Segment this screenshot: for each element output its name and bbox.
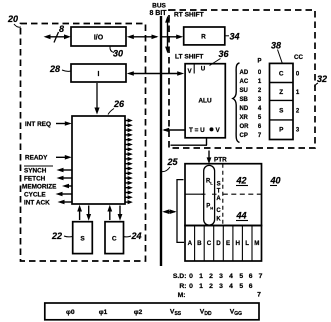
svg-text:M: M [254, 240, 259, 247]
svg-text:VGG: VGG [230, 309, 242, 318]
svg-text:ND: ND [240, 106, 249, 112]
svg-text:5: 5 [239, 283, 243, 290]
wire bus to R [162, 36, 181, 38]
svg-text:H: H [235, 240, 240, 247]
svg-text:7: 7 [259, 273, 263, 280]
svg-text:RT SHIFT: RT SHIFT [174, 12, 204, 19]
svg-text:L: L [210, 181, 213, 186]
svg-text:LT SHIFT: LT SHIFT [175, 54, 203, 61]
svg-text:B: B [197, 240, 202, 247]
flag index column [296, 72, 300, 134]
svg-text:1: 1 [296, 90, 300, 96]
op-code brace [233, 63, 240, 143]
svg-text:S: S [217, 182, 221, 188]
register cells [185, 226, 262, 262]
svg-text:6: 6 [258, 124, 262, 130]
svg-text:1: 1 [199, 283, 203, 290]
svg-text:0: 0 [296, 72, 300, 78]
bus width arrow 8 [46, 36, 69, 38]
svg-text:2: 2 [209, 273, 213, 280]
svg-text:AD: AD [240, 70, 249, 76]
svg-text:E: E [226, 240, 230, 247]
svg-text:P: P [257, 59, 261, 65]
svg-text:φ0: φ0 [66, 309, 75, 316]
stack divider left [185, 193, 204, 195]
svg-text:4: 4 [258, 106, 262, 112]
stack column dashed edge [222, 164, 224, 226]
svg-text:30: 30 [113, 49, 123, 59]
shift register box R 34 [184, 27, 225, 45]
ALU output stub [206, 138, 208, 145]
svg-text:2: 2 [209, 283, 213, 290]
svg-text:BUS: BUS [152, 3, 166, 10]
svg-text:H: H [210, 206, 213, 211]
svg-text:C: C [112, 236, 117, 243]
svg-text:36: 36 [219, 49, 230, 59]
pointer capsule [204, 165, 215, 225]
svg-text:CC: CC [294, 54, 303, 61]
register letters [188, 240, 260, 247]
dashed boundary box 20 [21, 24, 146, 262]
svg-text:D: D [216, 240, 221, 247]
svg-text:2: 2 [296, 109, 300, 115]
svg-text:2: 2 [258, 88, 262, 94]
op labels [240, 70, 250, 139]
svg-text:3: 3 [219, 273, 223, 280]
svg-text:SYNCH: SYNCH [24, 168, 47, 175]
svg-text:φ2: φ2 [134, 309, 143, 316]
bus branch vertical [167, 19, 169, 50]
svg-text:SU: SU [240, 88, 248, 94]
svg-text:4: 4 [229, 273, 233, 280]
svg-text:32: 32 [317, 74, 327, 84]
svg-text:CYCLE: CYCLE [24, 192, 46, 199]
svg-text:26: 26 [113, 99, 125, 109]
state box S 22 [73, 222, 93, 254]
register stack box 40 [185, 164, 262, 226]
svg-text:44: 44 [236, 211, 247, 221]
svg-text:C: C [207, 240, 212, 247]
svg-text:3: 3 [219, 283, 223, 290]
svg-text:34: 34 [230, 32, 240, 42]
svg-text:AC: AC [240, 79, 249, 85]
svg-text:R:: R: [179, 283, 186, 290]
PTR arrow [208, 151, 210, 161]
svg-text:T: T [217, 189, 221, 195]
svg-text:3: 3 [296, 128, 300, 134]
svg-text:PTR: PTR [214, 157, 227, 164]
wire bus to I [131, 73, 160, 75]
svg-text:5: 5 [258, 115, 262, 121]
label 34 [225, 35, 229, 37]
svg-text:A: A [188, 240, 193, 247]
instruction register box I 28 [71, 64, 126, 82]
wire control to C down [119, 206, 121, 217]
svg-text:K: K [216, 217, 221, 223]
svg-text:7: 7 [258, 133, 262, 139]
svg-text:φ1: φ1 [99, 309, 108, 316]
stack divider right dashed [223, 193, 262, 195]
svg-text:INT ACK: INT ACK [24, 200, 50, 207]
I/O box 30 [71, 27, 126, 46]
svg-text:VDD: VDD [200, 309, 212, 318]
svg-text:MEMORIZE: MEMORIZE [22, 184, 57, 191]
svg-text:U: U [201, 66, 206, 73]
svg-text:V: V [216, 127, 221, 134]
svg-text:R: R [201, 34, 206, 41]
svg-text:3: 3 [258, 97, 262, 103]
svg-text:8 BIT: 8 BIT [149, 10, 167, 17]
svg-text:VSS: VSS [170, 309, 182, 318]
bus line [160, 16, 162, 266]
svg-text:L: L [245, 240, 249, 247]
wire bus to ALU V [162, 73, 181, 75]
svg-text:38: 38 [271, 41, 281, 51]
svg-text:S.D:: S.D: [173, 273, 187, 280]
STACK vertical label [216, 182, 221, 223]
cycle box C 24 [105, 222, 124, 254]
svg-text:SB: SB [240, 97, 249, 103]
control box 26 [72, 116, 125, 204]
svg-text:5: 5 [239, 273, 243, 280]
svg-text:1: 1 [258, 79, 262, 85]
svg-text:M:: M: [178, 292, 186, 299]
svg-text:24: 24 [131, 231, 142, 241]
svg-text:25: 25 [167, 157, 179, 167]
svg-text:42: 42 [236, 176, 247, 186]
svg-text:C: C [279, 71, 284, 78]
wire control to S down [88, 206, 90, 217]
wire bus to register stack [164, 211, 175, 213]
svg-text:1: 1 [199, 273, 203, 280]
svg-text:0: 0 [258, 70, 262, 76]
svg-text:T = U: T = U [189, 127, 205, 134]
svg-text:A: A [216, 196, 221, 202]
wire ALU T to bus [164, 129, 185, 131]
svg-text:P: P [279, 127, 284, 134]
wire I to control box [96, 83, 98, 110]
svg-text:8: 8 [59, 24, 64, 34]
svg-text:FETCH: FETCH [24, 176, 46, 183]
wire I/O to bus [129, 36, 157, 38]
svg-text:6: 6 [249, 273, 253, 280]
comb outputs [125, 118, 133, 204]
svg-text:ALU: ALU [198, 98, 212, 105]
svg-text:OR: OR [240, 124, 250, 130]
svg-text:7: 7 [257, 292, 261, 299]
svg-text:S: S [80, 236, 85, 243]
svg-text:4: 4 [229, 283, 233, 290]
svg-text:INT REQ: INT REQ [25, 121, 51, 128]
svg-text:XR: XR [240, 115, 249, 121]
svg-text:I: I [98, 71, 100, 78]
svg-text:0: 0 [189, 283, 193, 290]
svg-text:S: S [279, 108, 284, 115]
svg-text:READY: READY [25, 155, 48, 162]
power box [45, 303, 259, 320]
wire control to S up [79, 209, 81, 221]
condition flags box [270, 63, 294, 139]
svg-text:28: 28 [49, 64, 60, 74]
svg-text:20: 20 [7, 14, 18, 24]
svg-text:I/O: I/O [94, 35, 104, 42]
svg-text:CP: CP [240, 133, 248, 139]
svg-text:6: 6 [249, 283, 253, 290]
dashed boundary box 32 [169, 10, 315, 148]
svg-text:22: 22 [51, 231, 62, 241]
svg-text:0: 0 [189, 273, 193, 280]
svg-text:C: C [216, 208, 221, 214]
bracket [177, 180, 184, 243]
svg-text:Z: Z [279, 89, 283, 96]
svg-text:40: 40 [270, 176, 281, 186]
ALU box [185, 64, 225, 138]
svg-text:V: V [188, 68, 193, 75]
wire control to C up [109, 209, 111, 221]
